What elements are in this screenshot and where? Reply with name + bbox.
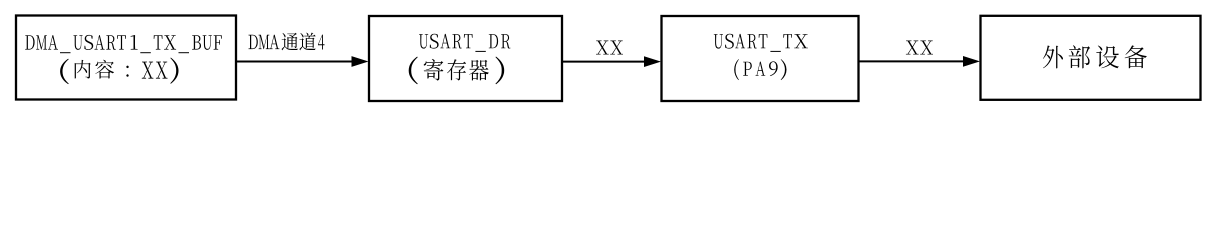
text (PA9) (734, 59, 786, 80)
box USART_TX (662, 16, 859, 101)
text USART_DR (419, 34, 510, 52)
text 外部设备 (1043, 45, 1147, 68)
text XX label2 (596, 41, 623, 55)
text （寄存器） (409, 57, 505, 85)
arrow USART_DR to USART_TX arrowhead (644, 56, 661, 67)
wire arrow USART_TX to external line (859, 60, 966, 62)
box DMA_USART1_TX_BUF (16, 16, 236, 100)
text DMA_USART1_TX_BUF (25, 35, 222, 53)
text （内容：XX） (60, 58, 178, 85)
wire arrow USART_DR to USART_TX line (562, 61, 646, 63)
wire arrow DMA to USART_DR line (236, 61, 354, 63)
arrow USART_TX to external arrowhead (963, 56, 980, 67)
arrow DMA to USART_DR arrowhead (352, 56, 369, 67)
text XX label3 (906, 41, 933, 55)
box USART_DR (369, 16, 562, 101)
box 外部设备 (981, 16, 1201, 100)
text USART_TX (714, 34, 808, 52)
text DMA通道4 (249, 33, 325, 51)
